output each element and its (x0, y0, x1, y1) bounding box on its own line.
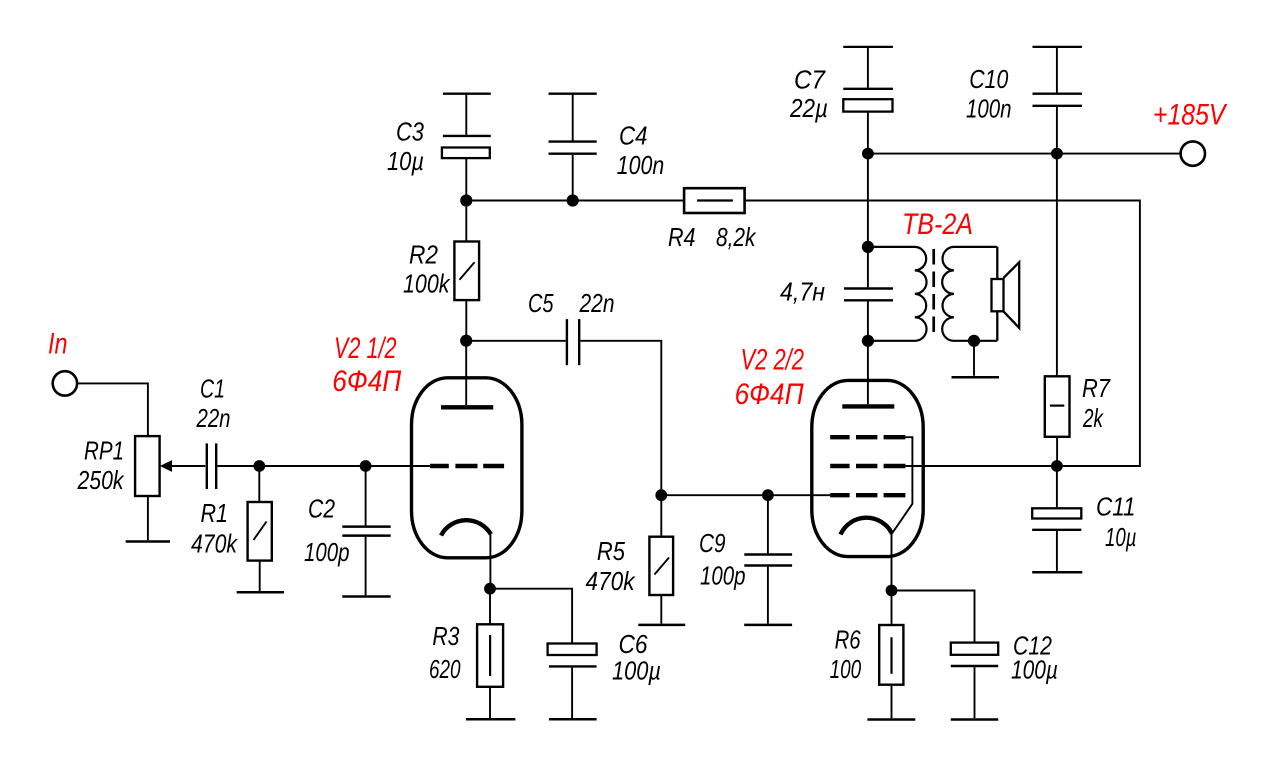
svg-text:22n: 22n (196, 403, 231, 433)
svg-text:470k: 470k (191, 529, 239, 559)
svg-text:8,2k: 8,2k (716, 222, 757, 252)
svg-text:+185V: +185V (1153, 99, 1228, 132)
tube V2 grid g3 dashes (830, 435, 905, 439)
transformer T1 secondary winding (942, 247, 997, 341)
wire grid row 2 (661, 494, 830, 496)
wire C5 to grid2 node (580, 341, 661, 495)
node junction C4 bus (567, 194, 579, 206)
node junction C2 (360, 460, 372, 472)
wire screen node to C11 (1056, 466, 1058, 508)
node In terminal (53, 371, 77, 395)
tube V1 anode plate (441, 405, 493, 409)
wire R2 leads (465, 201, 467, 341)
wire C2 lead (365, 466, 367, 525)
capacitor C2 (342, 527, 390, 536)
svg-text:250k: 250k (77, 465, 125, 495)
svg-text:V2 2/2: V2 2/2 (741, 344, 805, 377)
wire C7 to transformer primary (867, 154, 869, 247)
svg-text:R5: R5 (597, 536, 625, 566)
svg-text:C11: C11 (1096, 492, 1136, 522)
node screen junction (1051, 460, 1063, 472)
wire feedback loop R4 to screen node (745, 201, 1140, 467)
wire V2 cathode lead (891, 534, 893, 591)
wire R1 leads (258, 466, 260, 591)
svg-text:100µ: 100µ (612, 656, 661, 686)
capacitor C12 electrolytic (951, 643, 998, 719)
node junction C10 rail (1051, 148, 1063, 160)
svg-text:100n: 100n (966, 94, 1012, 124)
ground top C7 (843, 46, 893, 48)
potentiometer RP1 (135, 436, 205, 496)
wire cathode to C6 (490, 589, 572, 644)
svg-text:R1: R1 (201, 498, 229, 528)
tube V2 anode plate (842, 404, 894, 408)
wire cathode2 to C12 (892, 591, 975, 643)
svg-text:V2 1/2: V2 1/2 (334, 332, 397, 365)
svg-text:C4: C4 (619, 121, 648, 151)
wire R6 leads (891, 591, 893, 719)
svg-text:100k: 100k (403, 269, 451, 299)
resistor R3 (477, 624, 503, 687)
wire g3 to cathode link (892, 437, 912, 533)
wire input to RP1 top (77, 383, 148, 436)
tube V2 2/2 envelope (812, 380, 923, 556)
node junction R5 (655, 489, 667, 501)
capacitor C11 electrolytic (1032, 508, 1081, 571)
tube V1 grid dashes (430, 464, 504, 468)
tube V2 grid g1 dashes (830, 493, 905, 497)
wire C2 bottom (365, 537, 367, 596)
resistor R1 (248, 502, 272, 561)
capacitor C5 (567, 319, 579, 365)
node primary top (862, 241, 874, 253)
ground RP1 (126, 540, 170, 543)
svg-text:R4: R4 (668, 222, 696, 252)
capacitor C9 (744, 495, 792, 623)
ground top C3 (443, 93, 491, 95)
svg-text:C6: C6 (619, 629, 648, 659)
node cathode V1 (484, 583, 496, 595)
node junction C3 bus (460, 194, 472, 206)
ground C6 (549, 718, 597, 721)
svg-text:C5: C5 (528, 288, 554, 318)
resistor R5 (649, 537, 673, 595)
ground C2 (342, 595, 390, 598)
svg-text:22µ: 22µ (789, 93, 828, 123)
svg-text:C10: C10 (969, 64, 1008, 94)
ground top C4 (549, 93, 597, 95)
node primary bottom (862, 335, 874, 347)
wire secondary ground lead (973, 341, 975, 376)
wire C10 to R7 (1056, 154, 1058, 377)
ground speaker (952, 376, 1000, 379)
tube V2 cathode arc (841, 518, 893, 535)
ground R1 (237, 591, 284, 594)
capacitor C10 (1033, 48, 1083, 154)
svg-text:100p: 100p (304, 537, 350, 567)
node junction C7 rail (862, 148, 874, 160)
tube V2 1/2 envelope (412, 378, 522, 558)
svg-text:100n: 100n (617, 150, 665, 180)
svg-text:470k: 470k (586, 566, 637, 596)
tube V1 cathode arc (441, 520, 491, 535)
wire R3 leads (489, 589, 491, 718)
svg-text:10µ: 10µ (387, 146, 424, 176)
ground C11 (1032, 571, 1082, 574)
svg-text:4,7н: 4,7н (780, 277, 825, 307)
svg-text:RP1: RP1 (84, 436, 124, 466)
wire V1 cathode lead (489, 535, 491, 589)
capacitor C6 electrolytic (548, 644, 597, 719)
wire R7 bottom lead (1056, 437, 1058, 466)
svg-text:R3: R3 (432, 621, 459, 651)
node secondary bottom (968, 335, 980, 347)
wire C1 to grid row (218, 465, 431, 467)
resistor R4 (684, 188, 745, 213)
speaker LS1 (992, 247, 1020, 341)
wire +185V rail (868, 153, 1181, 155)
wire bus to R4 (466, 200, 684, 202)
svg-text:100: 100 (830, 654, 862, 684)
resistor R2 (454, 242, 479, 301)
svg-text:6Ф4П: 6Ф4П (735, 378, 804, 411)
wire R5 leads (660, 495, 662, 623)
node cathode V2 (886, 585, 898, 597)
svg-text:R7: R7 (1082, 373, 1111, 403)
capacitor C7 electrolytic (843, 48, 893, 154)
ground C12 (951, 718, 998, 721)
node anode V1 (460, 335, 472, 347)
svg-text:C7: C7 (794, 65, 826, 95)
node +185V terminal (1181, 141, 1205, 165)
svg-text:100µ: 100µ (1011, 655, 1058, 685)
capacitor C4 (549, 95, 597, 201)
node junction C9 (762, 489, 774, 501)
transformer T1 core (932, 249, 935, 339)
ground C9 (744, 624, 792, 627)
svg-text:R2: R2 (409, 240, 438, 270)
svg-text:6Ф4П: 6Ф4П (332, 365, 401, 398)
capacitor 4,7н (844, 247, 893, 341)
svg-text:R6: R6 (835, 625, 861, 655)
ground top C10 (1033, 46, 1083, 48)
resistor R6 (879, 625, 903, 685)
svg-text:C9: C9 (699, 528, 726, 558)
transformer T1 primary winding (868, 247, 927, 341)
svg-text:C2: C2 (308, 493, 335, 523)
wire V1 anode lead (465, 341, 467, 405)
tube V2 grid g2 dashes (830, 464, 905, 468)
svg-text:ТВ-2А: ТВ-2А (902, 208, 973, 241)
wire RP1 bottom (147, 496, 149, 540)
ground R6 (867, 718, 915, 721)
capacitor C1 (207, 443, 216, 489)
svg-text:620: 620 (429, 654, 461, 684)
svg-text:10µ: 10µ (1105, 522, 1137, 552)
svg-text:2k: 2k (1082, 403, 1104, 433)
resistor R7 (1045, 376, 1070, 437)
svg-text:C1: C1 (200, 374, 225, 404)
svg-text:22n: 22n (579, 288, 615, 318)
ground R3 (466, 718, 515, 721)
svg-text:C3: C3 (396, 117, 424, 147)
svg-text:100p: 100p (700, 560, 746, 590)
wire V2 anode lead (867, 341, 869, 404)
node junction R1 (253, 460, 265, 472)
wire anode node to C5 (466, 340, 566, 342)
capacitor C3 electrolytic (442, 95, 491, 201)
svg-text:In: In (48, 327, 68, 360)
ground R5 (638, 624, 685, 627)
